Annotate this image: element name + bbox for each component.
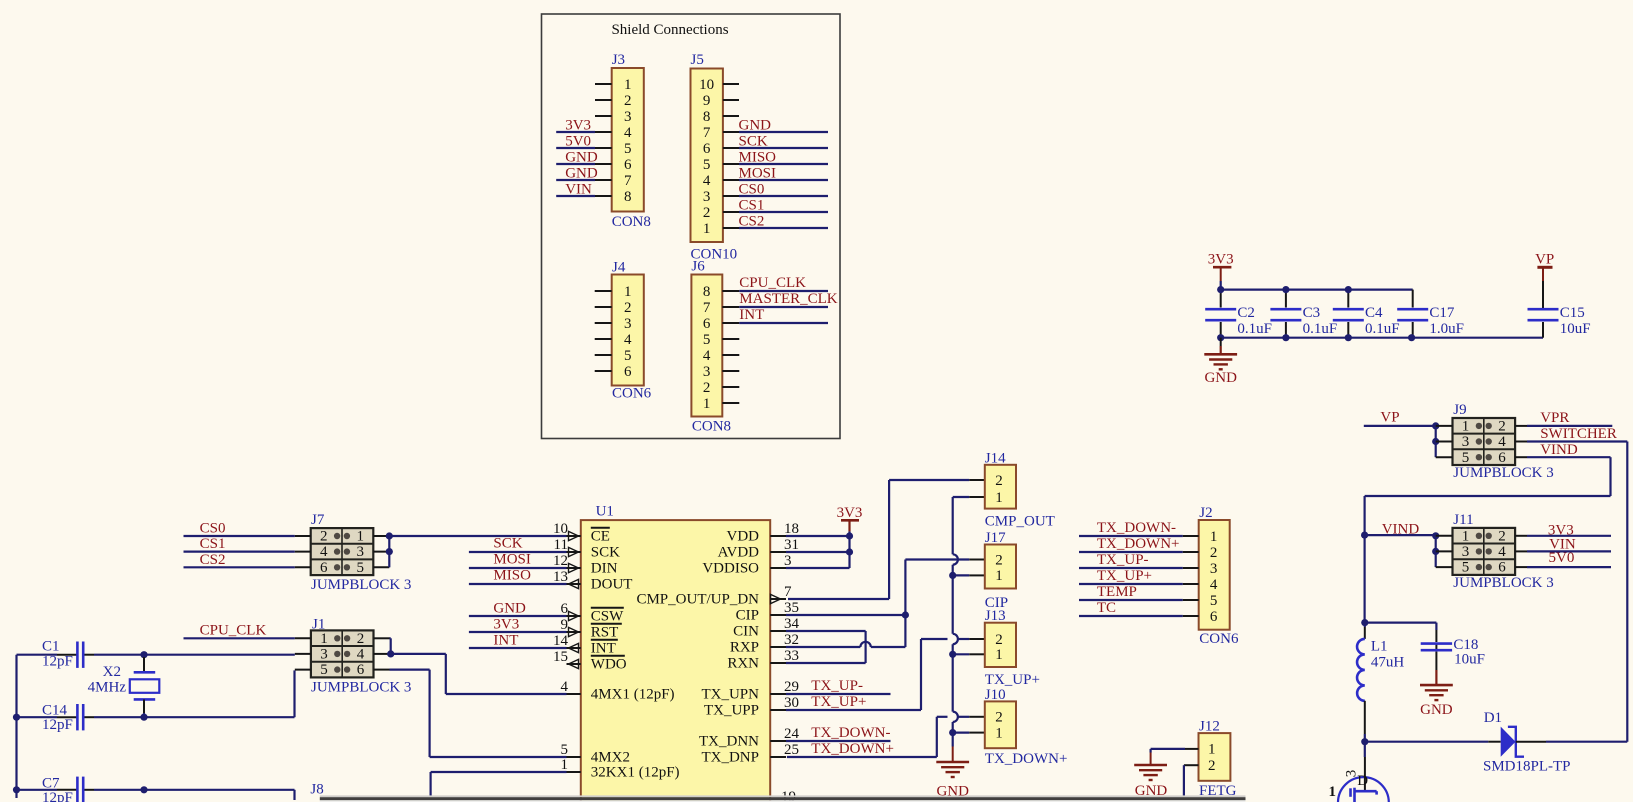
svg-text:MASTER_CLK: MASTER_CLK (739, 291, 838, 307)
svg-text:GND: GND (1204, 370, 1237, 386)
svg-text:8: 8 (703, 284, 711, 300)
svg-text:J6: J6 (691, 259, 705, 275)
svg-text:1: 1 (703, 396, 711, 412)
svg-text:2: 2 (995, 632, 1003, 648)
svg-text:8: 8 (703, 109, 711, 125)
svg-text:6: 6 (624, 157, 632, 173)
svg-text:VP: VP (1535, 252, 1554, 268)
svg-text:JUMPBLOCK 3: JUMPBLOCK 3 (1453, 575, 1553, 591)
svg-text:3: 3 (1462, 544, 1470, 560)
svg-text:GND: GND (565, 166, 598, 182)
svg-text:SCK: SCK (739, 134, 768, 150)
svg-text:CON8: CON8 (692, 419, 731, 435)
svg-text:5: 5 (1462, 450, 1470, 466)
svg-text:2: 2 (624, 300, 632, 316)
svg-text:3: 3 (703, 189, 711, 205)
svg-text:1: 1 (624, 284, 632, 300)
svg-text:1: 1 (995, 647, 1003, 663)
svg-text:8: 8 (624, 189, 632, 205)
svg-text:29: 29 (784, 679, 799, 695)
svg-text:WDO: WDO (591, 657, 627, 673)
svg-text:CIN: CIN (733, 624, 759, 640)
svg-text:TX_UP-: TX_UP- (1097, 552, 1149, 568)
svg-text:31: 31 (784, 537, 799, 553)
svg-text:2: 2 (1498, 419, 1506, 435)
svg-text:5: 5 (1462, 560, 1470, 576)
svg-text:10: 10 (553, 521, 568, 537)
svg-text:4: 4 (561, 679, 569, 695)
svg-text:J14: J14 (985, 450, 1006, 466)
svg-text:U1: U1 (596, 504, 614, 520)
svg-text:TX_DNP: TX_DNP (701, 750, 759, 766)
svg-text:3V3: 3V3 (565, 118, 591, 134)
svg-text:5: 5 (624, 348, 632, 364)
svg-text:RXN: RXN (727, 656, 759, 672)
svg-text:CS2: CS2 (739, 214, 765, 230)
svg-text:0.1uF: 0.1uF (1365, 321, 1400, 337)
svg-text:4MHz: 4MHz (88, 680, 127, 696)
svg-text:CIP: CIP (736, 608, 759, 624)
svg-text:J10: J10 (985, 687, 1006, 703)
svg-text:5: 5 (624, 141, 632, 157)
svg-text:DIN: DIN (591, 561, 618, 577)
svg-text:3: 3 (703, 364, 711, 380)
svg-text:VIND: VIND (1540, 442, 1578, 458)
svg-text:12pF: 12pF (42, 790, 73, 802)
svg-text:SWITCHER: SWITCHER (1540, 426, 1617, 442)
svg-text:4: 4 (703, 348, 711, 364)
svg-text:TX_DOWN+: TX_DOWN+ (1097, 536, 1180, 552)
svg-text:2: 2 (1498, 528, 1506, 544)
svg-text:25: 25 (784, 742, 799, 758)
svg-text:2: 2 (995, 473, 1003, 489)
svg-text:0.1uF: 0.1uF (1237, 321, 1272, 337)
svg-text:INT: INT (591, 641, 616, 657)
svg-text:TX_UP+: TX_UP+ (811, 694, 866, 710)
svg-text:GND: GND (493, 600, 526, 616)
svg-text:J8: J8 (310, 782, 323, 798)
svg-text:SCK: SCK (591, 545, 620, 561)
svg-text:MISO: MISO (493, 568, 531, 584)
svg-text:J17: J17 (985, 530, 1006, 546)
svg-text:1: 1 (320, 631, 328, 647)
svg-text:35: 35 (784, 600, 799, 616)
svg-text:4: 4 (320, 544, 328, 560)
svg-text:4MX1 (12pF): 4MX1 (12pF) (591, 687, 675, 703)
svg-text:C17: C17 (1429, 305, 1455, 321)
svg-text:J7: J7 (311, 512, 325, 528)
svg-text:CPU_CLK: CPU_CLK (200, 623, 267, 639)
svg-text:3V3: 3V3 (1208, 252, 1234, 268)
svg-text:J13: J13 (985, 608, 1006, 624)
svg-text:3V3: 3V3 (837, 505, 863, 521)
svg-text:2: 2 (1208, 758, 1216, 774)
svg-text:4: 4 (624, 125, 632, 141)
svg-text:C4: C4 (1365, 305, 1383, 321)
svg-text:CON8: CON8 (612, 214, 651, 230)
svg-text:1: 1 (357, 529, 365, 545)
svg-text:4: 4 (703, 173, 711, 189)
svg-text:L1: L1 (1371, 639, 1388, 655)
svg-text:13: 13 (553, 569, 568, 585)
svg-text:VPR: VPR (1540, 410, 1569, 426)
svg-text:34: 34 (784, 616, 800, 632)
svg-text:33: 33 (784, 648, 799, 664)
svg-text:D: D (1357, 773, 1368, 789)
svg-text:3: 3 (320, 647, 328, 663)
svg-text:2: 2 (995, 552, 1003, 568)
svg-text:TC: TC (1097, 600, 1116, 616)
svg-text:JUMPBLOCK 3: JUMPBLOCK 3 (311, 680, 411, 696)
svg-text:C3: C3 (1303, 305, 1321, 321)
svg-text:6: 6 (1210, 609, 1218, 625)
svg-text:1: 1 (624, 77, 632, 93)
svg-text:5V0: 5V0 (565, 134, 591, 150)
svg-text:1: 1 (561, 757, 569, 773)
svg-text:J11: J11 (1453, 512, 1473, 528)
svg-text:2: 2 (1210, 545, 1218, 561)
svg-text:9: 9 (561, 617, 569, 633)
svg-text:DOUT: DOUT (591, 577, 633, 593)
svg-text:6: 6 (561, 601, 569, 617)
svg-text:6: 6 (624, 364, 632, 380)
svg-text:2: 2 (320, 529, 328, 545)
svg-text:CS0: CS0 (200, 521, 226, 537)
svg-text:6: 6 (1498, 450, 1506, 466)
svg-text:TX_DOWN-: TX_DOWN- (1097, 520, 1176, 536)
svg-text:12: 12 (553, 553, 568, 569)
svg-text:15: 15 (553, 649, 568, 665)
svg-text:1: 1 (995, 725, 1003, 741)
svg-text:TX_UPP: TX_UPP (704, 703, 759, 719)
svg-text:10uF: 10uF (1454, 652, 1485, 668)
svg-text:GND: GND (565, 150, 598, 166)
svg-text:VIN: VIN (565, 182, 592, 198)
svg-text:2: 2 (995, 710, 1003, 726)
svg-text:TX_UP-: TX_UP- (811, 678, 863, 694)
svg-text:VDD: VDD (727, 529, 760, 545)
svg-text:CSW: CSW (591, 609, 624, 625)
svg-text:C2: C2 (1237, 305, 1255, 321)
svg-text:C15: C15 (1560, 305, 1585, 321)
svg-text:TX_DOWN-: TX_DOWN- (811, 725, 890, 741)
svg-text:3: 3 (624, 316, 632, 332)
svg-text:MOSI: MOSI (739, 166, 777, 182)
svg-text:5: 5 (703, 157, 711, 173)
svg-text:TX_DOWN+: TX_DOWN+ (811, 741, 894, 757)
svg-text:4: 4 (1210, 577, 1218, 593)
svg-text:1: 1 (703, 221, 711, 237)
svg-text:TX_UP+: TX_UP+ (1097, 568, 1152, 584)
svg-text:47uH: 47uH (1371, 655, 1405, 671)
svg-text:CON6: CON6 (612, 386, 652, 402)
svg-text:2: 2 (703, 380, 711, 396)
svg-text:5: 5 (357, 560, 365, 576)
svg-text:6: 6 (703, 316, 711, 332)
svg-text:JUMPBLOCK 3: JUMPBLOCK 3 (1453, 465, 1553, 481)
svg-text:4: 4 (624, 332, 632, 348)
svg-text:SCK: SCK (493, 536, 522, 552)
svg-text:MOSI: MOSI (493, 552, 531, 568)
svg-text:2: 2 (703, 205, 711, 221)
svg-text:4: 4 (1498, 434, 1506, 450)
svg-text:TX_UPN: TX_UPN (701, 687, 759, 703)
svg-text:5: 5 (561, 742, 569, 758)
svg-text:MISO: MISO (739, 150, 777, 166)
svg-text:3V3: 3V3 (493, 616, 519, 632)
svg-text:1: 1 (995, 568, 1003, 584)
svg-text:2: 2 (357, 631, 365, 647)
svg-text:CON6: CON6 (1199, 631, 1239, 647)
svg-text:J2: J2 (1199, 505, 1212, 521)
svg-text:SMD18PL-TP: SMD18PL-TP (1483, 759, 1571, 775)
svg-text:4: 4 (357, 647, 365, 663)
svg-text:3: 3 (624, 109, 632, 125)
svg-text:5: 5 (1210, 593, 1218, 609)
svg-text:32KX1 (12pF): 32KX1 (12pF) (591, 765, 680, 781)
svg-text:24: 24 (784, 726, 800, 742)
svg-text:Shield Connections: Shield Connections (611, 22, 728, 38)
svg-text:CMP_OUT: CMP_OUT (985, 514, 1055, 530)
svg-text:D1: D1 (1484, 710, 1502, 726)
svg-text:7: 7 (703, 125, 711, 141)
svg-text:5V0: 5V0 (1549, 550, 1575, 566)
svg-text:6: 6 (320, 560, 328, 576)
svg-text:1.0uF: 1.0uF (1429, 321, 1464, 337)
svg-text:3: 3 (784, 553, 792, 569)
svg-text:CS0: CS0 (739, 182, 765, 198)
svg-text:J3: J3 (612, 52, 625, 68)
svg-text:9: 9 (703, 93, 711, 109)
svg-text:JUMPBLOCK 3: JUMPBLOCK 3 (311, 577, 411, 593)
svg-text:TEMP: TEMP (1097, 584, 1137, 600)
svg-text:4: 4 (1498, 544, 1506, 560)
svg-text:3: 3 (357, 544, 365, 560)
svg-text:VDDISO: VDDISO (702, 561, 759, 577)
svg-text:1: 1 (1208, 742, 1216, 758)
svg-text:12pF: 12pF (42, 654, 73, 670)
svg-text:12pF: 12pF (42, 717, 73, 733)
svg-text:1: 1 (1462, 528, 1470, 544)
svg-text:1: 1 (1210, 529, 1218, 545)
svg-text:14: 14 (553, 633, 569, 649)
svg-text:32: 32 (784, 632, 799, 648)
svg-text:6: 6 (357, 662, 365, 678)
svg-text:RXP: RXP (730, 640, 759, 656)
svg-text:CE: CE (591, 529, 610, 545)
svg-text:J9: J9 (1453, 402, 1466, 418)
svg-text:1: 1 (1462, 419, 1470, 435)
svg-text:INT: INT (493, 632, 518, 648)
svg-text:2: 2 (624, 93, 632, 109)
svg-text:TX_DOWN+: TX_DOWN+ (985, 751, 1068, 767)
svg-text:10uF: 10uF (1560, 321, 1591, 337)
svg-text:CMP_OUT/UP_DN: CMP_OUT/UP_DN (636, 592, 759, 608)
svg-text:5: 5 (703, 332, 711, 348)
svg-text:CS1: CS1 (200, 536, 226, 552)
svg-text:7: 7 (624, 173, 632, 189)
svg-text:VP: VP (1380, 410, 1399, 426)
svg-text:X2: X2 (103, 664, 121, 680)
svg-text:3: 3 (1210, 561, 1218, 577)
svg-text:TX_DNN: TX_DNN (699, 734, 759, 750)
svg-text:7: 7 (784, 584, 792, 600)
svg-text:CS2: CS2 (200, 552, 226, 568)
svg-text:10: 10 (699, 77, 714, 93)
svg-text:INT: INT (739, 307, 764, 323)
svg-text:J4: J4 (612, 260, 626, 276)
svg-text:5: 5 (320, 662, 328, 678)
svg-text:7: 7 (703, 300, 711, 316)
svg-text:CS1: CS1 (739, 198, 765, 214)
svg-text:TX_UP+: TX_UP+ (985, 672, 1040, 688)
svg-text:GND: GND (739, 118, 772, 134)
svg-text:6: 6 (1498, 560, 1506, 576)
svg-text:18: 18 (784, 521, 799, 537)
svg-text:1: 1 (1329, 784, 1337, 800)
svg-text:1: 1 (995, 490, 1003, 506)
svg-text:AVDD: AVDD (718, 545, 760, 561)
svg-text:RST: RST (591, 625, 619, 641)
svg-text:30: 30 (784, 695, 799, 711)
svg-text:4MX2: 4MX2 (591, 750, 630, 766)
svg-text:GND: GND (1420, 702, 1453, 718)
svg-text:3: 3 (1462, 434, 1470, 450)
svg-text:C1: C1 (42, 639, 60, 655)
svg-text:J5: J5 (691, 52, 704, 68)
svg-text:CPU_CLK: CPU_CLK (739, 275, 806, 291)
svg-text:6: 6 (703, 141, 711, 157)
svg-text:11: 11 (554, 537, 568, 553)
svg-text:0.1uF: 0.1uF (1303, 321, 1338, 337)
